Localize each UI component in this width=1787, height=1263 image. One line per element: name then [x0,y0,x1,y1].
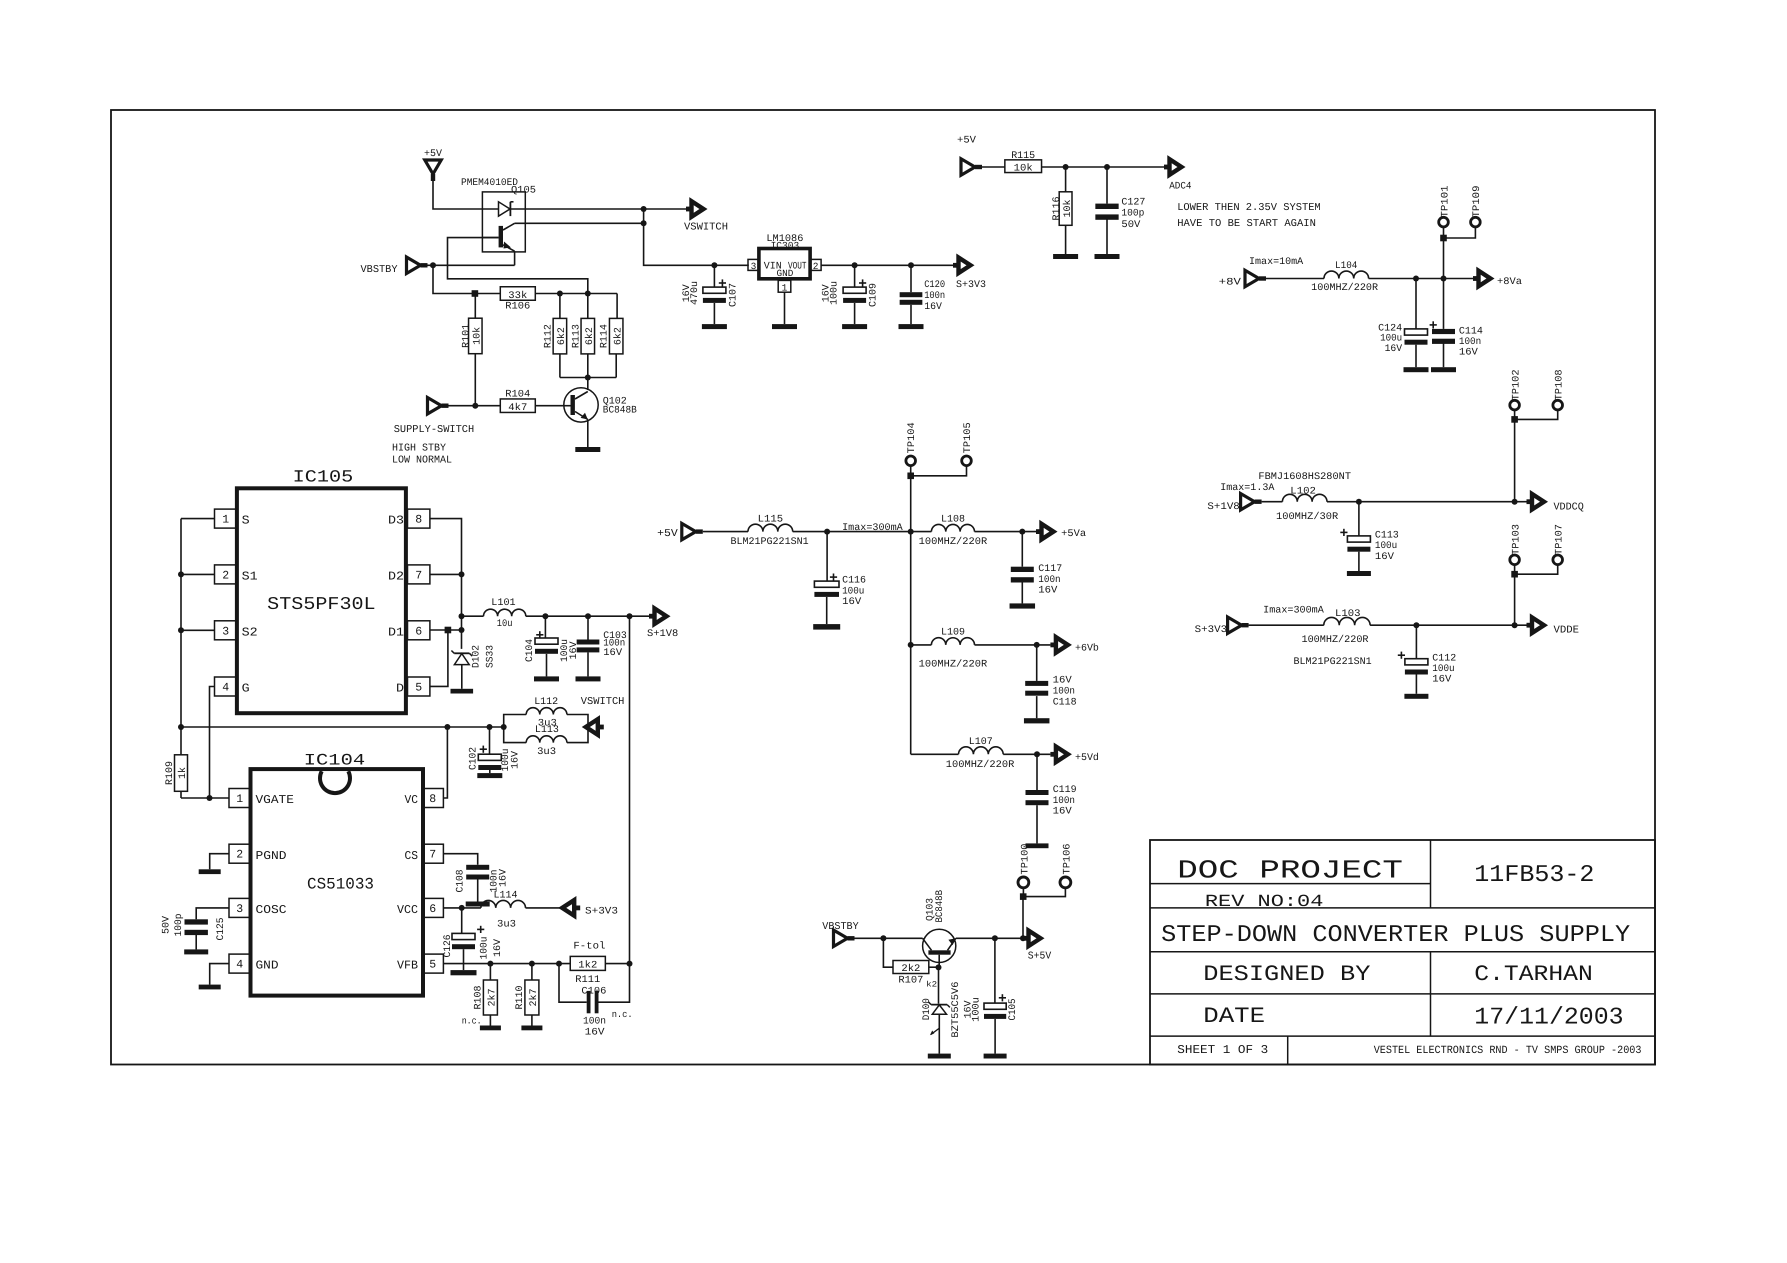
svg-text:6k2: 6k2 [584,327,596,345]
svg-text:BC848B: BC848B [603,405,637,416]
resistor R114 6k2 [600,294,625,378]
wire TP102/TP108 to VDDCQ rail [1511,410,1557,502]
svg-text:STS5PF30L: STS5PF30L [267,595,375,615]
test point TP100 [1018,844,1031,888]
wire Q105 emitter down to VBSTBY rail [514,251,516,265]
svg-text:8: 8 [415,514,422,527]
ground below C108 [466,902,490,907]
svg-text:7: 7 [429,849,436,862]
svg-text:33k: 33k [508,290,527,302]
svg-text:8: 8 [429,793,436,806]
svg-text:100u: 100u [1375,541,1397,552]
capacitor C108 100n 16V [455,865,509,902]
svg-text:C120: C120 [924,280,945,291]
resistor R113 6k2 [571,294,596,378]
title text DATE [1203,1004,1265,1029]
svg-text:CS51033: CS51033 [307,876,374,894]
svg-text:TP105: TP105 [963,422,974,453]
svg-text:VBSTBY: VBSTBY [822,921,859,933]
svg-text:16V: 16V [499,869,510,887]
svg-text:3: 3 [236,903,243,916]
text Imax=1.3A [1220,483,1274,494]
svg-text:L109: L109 [941,628,965,639]
capacitor C119 100n 16V [1026,754,1077,843]
pin 7 of IC105 (D2) [388,565,430,584]
ground below R116 [1053,254,1078,259]
pin 2 of IC303 [810,259,821,272]
svg-text:BLM21PG221SN1: BLM21PG221SN1 [731,537,809,548]
svg-text:C105: C105 [1008,998,1019,1020]
svg-text:16V: 16V [1385,344,1403,355]
wire COSC to C125 [196,908,229,919]
resistor R115 10k [1005,151,1042,175]
svg-text:BC848B: BC848B [935,890,946,923]
svg-text:100n: 100n [1053,796,1075,807]
svg-text:100p: 100p [174,914,185,937]
diode of Q105 [482,202,643,216]
junction dots VFB row [487,961,632,967]
capacitor C107 470u 16V [682,265,739,324]
svg-text:100n: 100n [1459,337,1481,348]
svg-text:TP104: TP104 [907,422,918,453]
ground below C127 [1095,254,1120,259]
svg-text:100u: 100u [1432,664,1454,675]
svg-text:17/11/2003: 17/11/2003 [1474,1005,1623,1032]
pin 3 of IC105 (S2) [215,621,258,640]
svg-text:C119: C119 [1053,785,1077,796]
capacitor C104 100u 16V [525,616,580,676]
ground below C113 [1347,571,1371,576]
ground below C126 [451,970,477,975]
port VDDCQ (output) [1527,494,1584,514]
svg-text:100MHZ/30R: 100MHZ/30R [1276,511,1338,523]
resistor R108 2k7 (n.c.) [473,964,498,1026]
svg-text:+8V: +8V [1219,277,1241,288]
svg-text:5: 5 [429,959,436,972]
svg-text:50V: 50V [1121,220,1140,231]
svg-text:LOW NORMAL: LOW NORMAL [392,454,452,466]
test point TP102 [1510,369,1523,410]
title text C.TARHAN [1474,962,1593,987]
pin 8 of IC105 (D3) [388,509,430,528]
svg-text:+8Va: +8Va [1497,277,1522,288]
ground below GND pin [199,985,221,990]
ground below C120 [899,324,924,329]
component box PMEM4010ED Q105 [461,178,536,252]
ground below C114 [1431,367,1456,372]
ground below C107 [702,324,727,329]
svg-text:+5V: +5V [657,528,678,540]
svg-text:+5V: +5V [957,135,976,146]
wire VBSTBY rail [428,262,515,268]
svg-text:+6Vb: +6Vb [1075,643,1099,655]
pin 1 of IC104 (VGATE) [229,789,294,808]
wire VGATE row [181,795,229,801]
svg-text:VC: VC [405,793,419,807]
inductor L104 100MHZ/220R [1266,261,1473,294]
inductor L107 100MHZ/220R [911,737,1051,771]
ground below C125 [184,949,208,954]
svg-text:100u: 100u [972,997,983,1022]
svg-text:S1: S1 [242,570,258,584]
svg-text:2: 2 [236,849,243,862]
ground below IC303 [772,324,797,329]
resistor R107 2k2 [883,938,938,986]
resistor R112 6k2 [543,294,568,378]
svg-text:100MHZ/220R: 100MHZ/220R [919,536,988,548]
junction dots VSWITCH node [641,206,647,226]
capacitor C126 100u 16V [443,908,504,970]
svg-text:VBSTBY: VBSTBY [361,264,399,276]
svg-text:C104: C104 [525,639,536,662]
svg-text:C116: C116 [842,575,866,586]
port S+3V3 (input, right) [1195,617,1249,636]
port S+3V3 (input to VCC) [562,900,618,917]
transistor Q105 (PNP) [482,223,514,251]
wire SUPPLY-SWITCH to R104 [449,403,501,409]
svg-text:G: G [242,682,250,696]
junction dots 33k row [557,291,591,297]
svg-text:L113: L113 [535,725,559,736]
wire CS to C108 [443,854,477,865]
svg-text:DOC PROJECT: DOC PROJECT [1177,856,1403,886]
ground below C118 [1024,718,1049,723]
wire IC105 gate to IC104 VGATE [210,687,215,799]
svg-text:R101: R101 [462,324,473,348]
svg-text:C107: C107 [728,283,739,307]
test point TP105 [962,422,974,465]
svg-text:GND: GND [777,268,794,279]
inductor L115 BLM21PG221SN1 [731,515,932,548]
svg-text:R111: R111 [575,975,600,986]
svg-text:S+3V3: S+3V3 [956,280,986,291]
svg-text:16V: 16V [493,939,504,957]
inductor L103 100MHZ/220R [1249,609,1527,646]
svg-text:D100: D100 [922,998,933,1020]
pin 4 of IC104 (GND) [229,954,279,973]
wire R115 to ADC4 [1042,164,1164,170]
pin 1 of IC303 [778,280,791,293]
svg-text:CS: CS [405,849,419,863]
inductor L113 3u3 [504,725,588,758]
svg-text:VFB: VFB [397,959,418,973]
capacitor C103 100n 16V [577,616,627,676]
svg-text:R108: R108 [473,986,484,1010]
inductor L108 100MHZ/220R [919,515,1036,548]
svg-text:R110: R110 [515,986,526,1010]
svg-text:TP101: TP101 [1440,186,1451,218]
svg-text:R104: R104 [505,389,530,400]
svg-text:Imax=10mA: Imax=10mA [1249,257,1303,268]
wire VBSTBY down to 33k row [433,265,475,293]
svg-text:IC104: IC104 [304,752,365,770]
svg-text:REV NO:04: REV NO:04 [1205,893,1324,912]
ground below C105 [984,1054,1007,1059]
wire IC105 source bus (left) [181,519,215,755]
capacitor C114 100n 16V [1432,279,1483,368]
svg-text:TP109: TP109 [1472,186,1483,218]
svg-text:SHEET 1 OF 3: SHEET 1 OF 3 [1177,1043,1268,1057]
ground below C124 [1404,367,1429,372]
svg-text:C127: C127 [1121,198,1145,209]
ground below C103 [576,676,601,681]
svg-text:VDDE: VDDE [1554,624,1580,636]
test point TP104 [906,422,918,465]
capacitor C127 100p 50V [1095,167,1145,254]
svg-text:16V: 16V [1038,586,1057,597]
svg-text:3: 3 [222,625,229,638]
svg-text:C106: C106 [581,986,606,997]
text FBMJ1608HS280NT [1258,472,1351,483]
wire +5V to L115 [703,531,748,533]
title text REV NO:04 [1205,893,1324,912]
title text 17/11/2003 [1474,1005,1623,1032]
ground below C102 [477,773,502,778]
transistor Q102 BC848B (NPN) [564,388,637,422]
svg-text:100n: 100n [1053,687,1075,698]
drawing frame border [111,110,1655,1065]
svg-text:DATE: DATE [1203,1004,1265,1029]
svg-text:TP100: TP100 [1020,844,1031,875]
wire TP104/TP105 to +5V node [907,466,966,532]
text BLM21PG221SN1 (right) [1294,657,1372,668]
svg-text:SUPPLY-SWITCH: SUPPLY-SWITCH [394,424,475,436]
svg-text:+5V: +5V [424,149,442,160]
svg-text:C109: C109 [869,283,880,307]
svg-text:16V: 16V [585,1028,605,1039]
ground below C116 [813,624,840,630]
svg-text:S+5V: S+5V [1028,951,1052,963]
title text 11FB53-2 [1474,862,1594,889]
svg-text:L104: L104 [1335,261,1357,272]
svg-text:7: 7 [415,569,422,582]
svg-text:R113: R113 [571,324,582,348]
port S+5V (output) [1023,931,1052,963]
svg-text:S+1V8: S+1V8 [647,629,678,640]
svg-text:IC105: IC105 [293,469,354,488]
ground below D100 [928,1054,951,1059]
svg-text:TP102: TP102 [1511,369,1522,400]
port +5V (top left) [424,149,442,181]
test point TP106 [1060,844,1073,888]
svg-text:16V: 16V [1053,807,1072,818]
svg-text:2k7: 2k7 [486,989,498,1007]
svg-text:100u: 100u [842,586,864,597]
svg-text:C125: C125 [216,918,227,941]
svg-text:TP103: TP103 [1511,524,1522,555]
svg-text:2k7: 2k7 [528,989,540,1007]
junction dots S+1V8 rail [542,613,632,619]
port +5V (top right) [957,135,982,175]
svg-text:100MHZ/220R: 100MHZ/220R [1311,282,1378,294]
svg-text:16V: 16V [1432,675,1451,686]
svg-text:100n: 100n [924,291,945,302]
svg-text:16V: 16V [1459,347,1478,358]
svg-text:C117: C117 [1038,564,1062,575]
capacitor C109 100u 16V [822,265,880,324]
svg-text:16V: 16V [603,648,622,659]
svg-text:SS33: SS33 [485,645,496,668]
svg-text:C102: C102 [468,747,479,770]
resistor R116 10k [1052,167,1074,254]
svg-text:100p: 100p [1121,209,1144,220]
ground below PGND [199,869,221,874]
wire Q105 collector to VSWITCH node [515,209,644,223]
pin 4 of IC105 (G) [215,677,250,696]
svg-text:k2: k2 [926,981,937,990]
inductor L114 3u3 [481,891,562,931]
capacitor C120 100n 16V [900,265,946,324]
pin 1 of IC105 (S) [215,509,250,528]
pin 6 of IC105 (D1) [388,621,430,640]
svg-text:COSC: COSC [256,903,287,917]
port SUPPLY-SWITCH [394,398,475,437]
svg-text:Imax=300mA: Imax=300mA [842,523,903,534]
svg-text:VCC: VCC [397,903,418,917]
svg-text:L114: L114 [494,891,518,902]
svg-text:F-tol: F-tol [573,940,605,952]
svg-text:n.c.: n.c. [462,1016,482,1027]
svg-text:R107: R107 [898,976,923,987]
port S+3V3 (output of LM1086) [953,258,986,291]
resistor R104 4k7 [500,389,564,414]
svg-text:n.c.: n.c. [612,1009,633,1020]
text Imax=300mA (right) [1263,606,1324,617]
svg-text:D2: D2 [388,570,404,584]
svg-text:3u3: 3u3 [537,747,556,758]
ground below C104 [534,676,559,681]
diode D100 BZT55C5V6 (zener) [922,967,962,1053]
port ADC4 (output) [1164,159,1192,192]
svg-text:1k: 1k [177,767,189,779]
wire VCC row [443,905,481,911]
pin 3 of IC303 [748,259,759,272]
resistor R110 2k7 [515,964,540,1026]
svg-text:16V: 16V [1053,676,1072,687]
wire TP103/TP107 to VDDE rail [1511,565,1557,626]
junction square R101 tap [472,290,479,297]
svg-text:C118: C118 [1053,697,1077,708]
junction dots VDDCQ rail [1356,499,1518,505]
svg-text:50V: 50V [162,916,173,934]
svg-text:100MHZ/220R: 100MHZ/220R [946,759,1015,771]
text HIGH STBY / LOW NORMAL [392,443,452,467]
svg-text:100MHZ/220R: 100MHZ/220R [1302,634,1369,646]
IC IC104 CS51033 body [251,752,424,996]
port +8V [1219,270,1266,288]
pin 7 of IC104 (CS) [405,844,444,863]
wire Q102 emitter to ground [587,420,589,448]
pin 5 of IC105 (D) [396,677,430,696]
note text HAVE TO BE START AGAIN [1177,218,1316,230]
wire VBSTBY to Q103 [855,935,923,941]
svg-text:R114: R114 [600,324,611,348]
svg-text:100MHZ/220R: 100MHZ/220R [919,659,988,671]
svg-text:TP106: TP106 [1062,844,1073,875]
capacitor C113 100u 16V [1340,502,1399,571]
text Imax=300mA (+5V rail) [842,523,903,534]
svg-text:D: D [396,682,404,696]
junction dots source bus [178,571,184,730]
svg-text:STEP-DOWN CONVERTER PLUS SUPPL: STEP-DOWN CONVERTER PLUS SUPPLY [1161,922,1630,949]
title text STEP-DOWN CONVERTER PLUS SUPPLY [1161,922,1630,949]
port S+1V8 (input) [1207,494,1261,514]
port VBSTBY (left) [361,257,428,276]
svg-text:C126: C126 [443,935,454,958]
svg-text:PMEM4010ED: PMEM4010ED [461,178,518,189]
svg-text:S2: S2 [242,625,258,639]
inductor L112 3u3 [504,697,588,730]
title text DESIGNED BY [1203,962,1370,987]
svg-text:16V: 16V [924,302,942,313]
junction dots +8Va rail [1413,276,1447,282]
svg-text:HAVE TO BE START AGAIN: HAVE TO BE START AGAIN [1177,218,1316,230]
wire LM1086 output rail [821,262,953,268]
pin 2 of IC105 (S1) [215,565,258,584]
port VBSTBY (bottom) [822,921,859,947]
test point TP101 [1439,186,1452,227]
port S+1V8 (output) [647,608,678,640]
ground below D102 [451,689,474,694]
svg-text:IC303: IC303 [771,241,800,252]
wire +5V down to diode rail [433,181,482,209]
port +5V (middle) [657,523,703,540]
wire TP100/TP106 to S+5V [1020,888,1066,939]
svg-text:L112: L112 [534,697,558,708]
title text VESTEL ELECTRONICS RND - TV SMPS GROUP -2003 [1374,1045,1642,1057]
svg-text:S: S [242,514,250,528]
capacitor C116 100u 16V [814,532,866,625]
ground below Q102 [575,447,600,452]
svg-text:5: 5 [415,682,422,695]
svg-text:VSWITCH: VSWITCH [581,696,625,708]
transistor Q103 BC848B (NPN) [923,890,956,967]
svg-text:L115: L115 [758,515,784,526]
ground below C112 [1404,694,1428,699]
svg-text:C113: C113 [1375,531,1399,542]
wire TP101/TP109 to +8Va rail [1440,227,1475,279]
svg-text:VGATE: VGATE [256,793,294,807]
junction dots drain bus [459,571,465,633]
pin 5 of IC104 (VFB) [397,954,443,973]
ground below R108 [480,1026,501,1031]
svg-text:2: 2 [813,261,819,272]
wire VFB row [443,963,570,965]
svg-text:LOWER THEN 2.35V SYSTEM: LOWER THEN 2.35V SYSTEM [1177,202,1321,214]
junction dot Q103 base node [936,964,942,970]
capacitor C106 100n 16V (n.c.) [559,964,633,1039]
capacitor C105 100u 16V [964,938,1019,1053]
svg-text:PGND: PGND [256,849,287,863]
wire PGND to ground [210,854,229,870]
inductor L109 100MHZ/220R [911,628,1051,671]
resistor R111 1k2 (F-tol) [570,940,629,986]
test point TP109 [1471,186,1484,227]
svg-text:16V: 16V [1375,552,1394,563]
wire GND pin to ground [210,964,229,985]
svg-text:S+3V3: S+3V3 [1195,625,1227,636]
svg-text:TP107: TP107 [1555,524,1566,555]
svg-text:10u: 10u [497,619,513,630]
svg-text:2: 2 [222,569,229,582]
svg-text:C112: C112 [1432,653,1456,664]
svg-text:6k2: 6k2 [612,327,624,345]
junction dot C119 [1034,751,1040,757]
svg-text:Q105: Q105 [511,186,536,197]
svg-text:FBMJ1608HS280NT: FBMJ1608HS280NT [1258,472,1351,483]
svg-text:ADC4: ADC4 [1169,182,1191,193]
svg-text:1: 1 [236,793,243,806]
